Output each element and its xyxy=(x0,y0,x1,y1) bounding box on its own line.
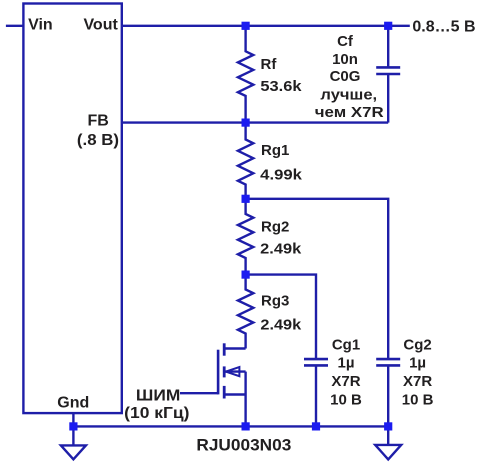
svg-text:4.99k: 4.99k xyxy=(260,166,302,183)
svg-text:(10 кГц): (10 кГц) xyxy=(124,405,189,422)
svg-text:FB: FB xyxy=(88,112,109,129)
svg-text:53.6k: 53.6k xyxy=(260,78,302,95)
wire drain link xyxy=(224,347,245,349)
transistor Q1 body arrow xyxy=(226,367,240,376)
junction Cg2-ground xyxy=(384,422,392,430)
capacitor C1 Cf bottom lead xyxy=(387,74,389,123)
resistor R1 Rf xyxy=(238,26,253,123)
svg-text:0.8…5 В: 0.8…5 В xyxy=(412,18,475,35)
wire source to ground rail xyxy=(244,372,246,427)
svg-text:Cg1: Cg1 xyxy=(332,336,360,353)
svg-text:ШИМ: ШИМ xyxy=(136,387,180,404)
svg-text:Rf: Rf xyxy=(261,56,278,73)
transistor Q1 channel bottom bar xyxy=(223,386,226,399)
svg-text:Vin: Vin xyxy=(28,16,53,33)
svg-text:Vout: Vout xyxy=(83,16,118,33)
transistor Q1 body line xyxy=(224,370,245,372)
svg-text:Gnd: Gnd xyxy=(57,395,89,412)
svg-text:C0G: C0G xyxy=(330,68,361,85)
svg-text:Rg2: Rg2 xyxy=(261,219,289,236)
svg-text:1µ: 1µ xyxy=(409,355,426,372)
wire FB rail xyxy=(122,121,388,123)
svg-text:Rg3: Rg3 xyxy=(261,293,289,310)
svg-text:Cf: Cf xyxy=(337,33,354,50)
svg-text:10 В: 10 В xyxy=(402,391,434,408)
junction FB-Rf-Rg1 xyxy=(242,119,250,127)
svg-text:10 В: 10 В xyxy=(330,391,362,408)
svg-text:X7R: X7R xyxy=(403,373,432,390)
capacitor C1 Cf top lead xyxy=(387,26,389,68)
regulator IC U1 box xyxy=(23,4,121,414)
svg-text:2.49k: 2.49k xyxy=(260,241,302,258)
ground symbol left xyxy=(61,445,86,459)
wire Cg2 ground stub xyxy=(387,426,389,445)
svg-text:RJU003N03: RJU003N03 xyxy=(196,435,291,454)
junction source-ground xyxy=(242,422,250,430)
svg-text:(.8 В): (.8 В) xyxy=(77,132,119,149)
svg-text:чем X7R: чем X7R xyxy=(315,104,384,121)
junction Rg1-Rg2 xyxy=(242,195,250,203)
svg-text:лучше,: лучше, xyxy=(320,86,377,103)
svg-text:10n: 10n xyxy=(332,51,358,68)
transistor Q1 gate bar xyxy=(217,350,220,395)
junction Cg1-ground xyxy=(312,422,320,430)
resistor R3 Rg2 xyxy=(238,199,253,275)
svg-text:2.49k: 2.49k xyxy=(260,316,302,333)
capacitor C2 Cg1 plates xyxy=(304,359,328,365)
resistor R2 Rg1 xyxy=(238,123,253,199)
junction Rg2-Rg3 xyxy=(242,271,250,279)
capacitor C3 Cg2 plates xyxy=(376,359,400,365)
svg-text:1µ: 1µ xyxy=(338,355,355,372)
transistor Q1 source line xyxy=(224,393,245,395)
wire ground rail xyxy=(73,425,388,427)
capacitor C1 Cf plates xyxy=(376,67,400,74)
wire rail Rg1 bottom to Cg2 xyxy=(246,199,389,359)
ground symbol right xyxy=(375,445,401,460)
junction Gnd rail left xyxy=(69,422,77,430)
wire Gnd stub xyxy=(72,413,74,445)
junction Vout-Cf xyxy=(384,22,392,30)
capacitor C3 Cg2 bottom lead xyxy=(387,365,389,426)
capacitor C2 Cg1 bottom lead xyxy=(315,365,317,426)
transistor Q1 channel middle bar xyxy=(223,366,226,377)
resistor R4 Rg3 xyxy=(238,275,253,349)
junction Vout-Rf xyxy=(242,22,250,30)
wire top rail Vout xyxy=(122,25,410,27)
svg-text:Cg2: Cg2 xyxy=(403,336,431,353)
svg-text:X7R: X7R xyxy=(331,373,360,390)
wire gate lead xyxy=(180,392,218,394)
wire rail Rg2 bottom to Cg1 xyxy=(246,275,316,360)
wire Vin lead xyxy=(6,25,24,27)
transistor Q1 channel top bar xyxy=(223,343,226,355)
svg-text:Rg1: Rg1 xyxy=(261,142,289,159)
